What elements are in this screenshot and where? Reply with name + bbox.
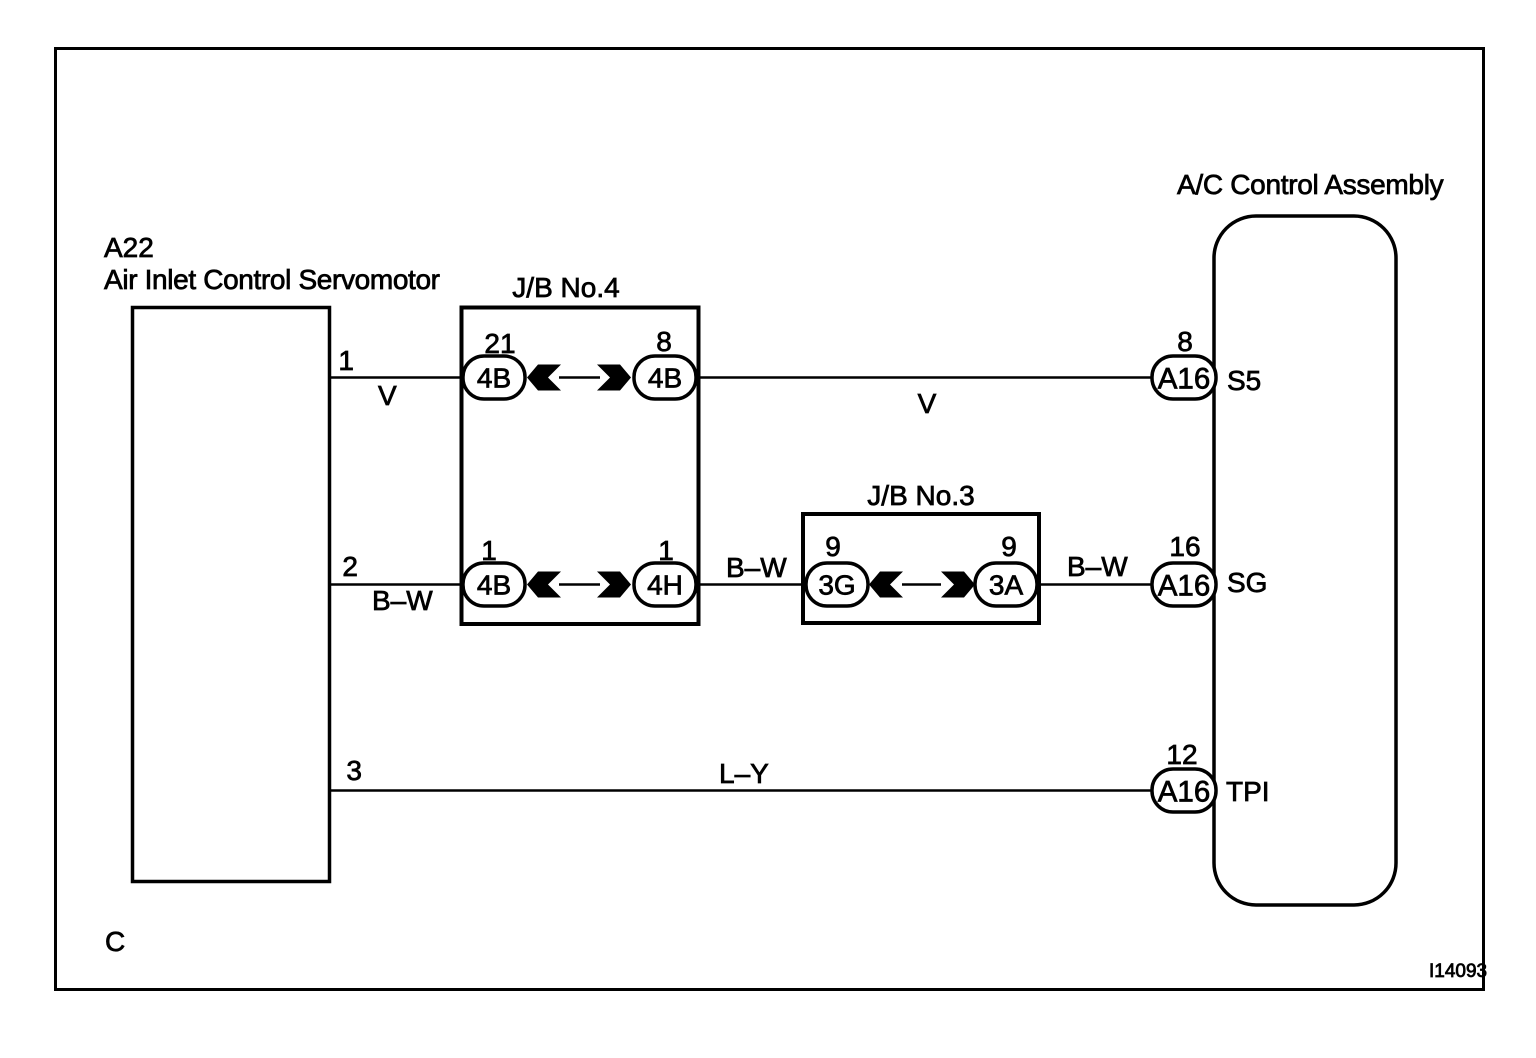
svg-text:4H: 4H: [647, 570, 683, 601]
svg-text:21: 21: [484, 328, 515, 359]
svg-text:1: 1: [338, 345, 354, 376]
svg-text:A/C Control Assembly: A/C Control Assembly: [1177, 169, 1444, 200]
wire: servomotor pin 1 to J/B No.4 connector 4B: [330, 376, 464, 378]
svg-text:Air Inlet Control Servomotor: Air Inlet Control Servomotor: [104, 264, 440, 295]
wire: servomotor pin 2 to J/B No.4 connector 4B: [330, 583, 464, 585]
svg-text:B–W: B–W: [372, 585, 433, 616]
svg-text:V: V: [378, 380, 397, 411]
svg-text:J/B No.3: J/B No.3: [867, 480, 974, 511]
svg-text:I14093: I14093: [1429, 961, 1487, 982]
svg-text:B–W: B–W: [1067, 551, 1128, 582]
connector oval 4B pin 21: [463, 356, 525, 399]
svg-text:S5: S5: [1227, 365, 1261, 396]
svg-text:TPI: TPI: [1226, 776, 1270, 807]
connector oval 4B pin 8: [634, 356, 696, 399]
svg-text:V: V: [918, 388, 937, 419]
connector oval 4B pin 1: [463, 563, 525, 606]
arrow male (row 1, J/B No.4): [597, 365, 631, 391]
svg-text:4B: 4B: [477, 570, 511, 601]
svg-text:3G: 3G: [818, 570, 855, 601]
svg-text:12: 12: [1166, 739, 1197, 770]
svg-text:A16: A16: [1158, 570, 1211, 603]
svg-text:9: 9: [825, 531, 841, 562]
connector oval A16 pin 12: [1152, 769, 1216, 812]
svg-text:2: 2: [342, 551, 358, 582]
connector oval 3A pin 9: [975, 563, 1037, 606]
svg-text:3A: 3A: [989, 570, 1024, 601]
arrow female (row 1, J/B No.4): [527, 365, 561, 391]
component A22 Air Inlet Control Servomotor: [133, 308, 330, 882]
svg-text:9: 9: [1001, 531, 1017, 562]
junction block J/B No.3: [803, 514, 1039, 623]
svg-text:J/B No.4: J/B No.4: [512, 272, 619, 303]
svg-text:8: 8: [1177, 326, 1193, 357]
svg-text:1: 1: [658, 535, 674, 566]
junction block J/B No.4: [462, 308, 699, 625]
wire between arrows (row 2): [559, 583, 600, 585]
wire between arrows (J/B No.3): [902, 583, 941, 585]
wire between arrows (row 1): [559, 376, 600, 378]
arrow female (J/B No.3): [869, 572, 903, 598]
connector oval A16 pin 16: [1152, 563, 1216, 606]
wire: J/B No.4 to J/B No.3: [696, 583, 807, 585]
wire: J/B No.4 to A/C assembly S5: [696, 376, 1153, 378]
svg-text:A22: A22: [104, 232, 154, 263]
connector oval 3G pin 9: [806, 563, 868, 606]
connector oval A16 pin 8: [1152, 356, 1216, 399]
svg-text:8: 8: [656, 326, 672, 357]
svg-text:1: 1: [481, 535, 497, 566]
svg-text:A16: A16: [1158, 776, 1211, 809]
wire: J/B No.3 to A/C assembly SG: [1037, 583, 1153, 585]
svg-text:C: C: [105, 926, 125, 957]
svg-text:L–Y: L–Y: [719, 758, 769, 789]
wire: servomotor pin 3 to A/C assembly TPI: [330, 789, 1153, 791]
svg-text:16: 16: [1169, 531, 1200, 562]
connector oval 4H pin 1: [634, 563, 696, 606]
svg-text:B–W: B–W: [726, 552, 787, 583]
svg-text:SG: SG: [1227, 567, 1267, 598]
arrow male (row 2, J/B No.4): [597, 572, 631, 598]
svg-text:4B: 4B: [477, 363, 511, 394]
svg-text:A16: A16: [1158, 363, 1211, 396]
svg-text:3: 3: [346, 755, 362, 786]
arrow female (row 2, J/B No.4): [527, 572, 561, 598]
arrow male (J/B No.3): [941, 572, 975, 598]
component A/C Control Assembly: [1214, 216, 1396, 905]
svg-text:4B: 4B: [648, 363, 682, 394]
